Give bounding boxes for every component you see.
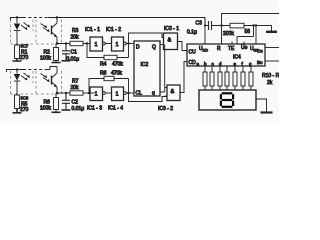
phototransistor T1: [51, 26, 53, 35]
resistor 200k: [230, 23, 244, 28]
svg-text:1: 1: [95, 92, 98, 98]
ground under R5: [13, 109, 22, 113]
resistor array R10-R16 2k: [203, 72, 207, 86]
svg-text:1: 1: [116, 42, 119, 48]
node: gate3 input junction: [88, 92, 90, 94]
svg-text:D: D: [136, 45, 140, 51]
node: T2 emitter junction: [56, 92, 58, 94]
svg-text:3C8: 3C8: [21, 96, 29, 101]
ground top-right: [271, 26, 273, 32]
svg-text:IC1 - 3: IC1 - 3: [87, 106, 102, 112]
node: T1 emitter junction: [56, 42, 58, 44]
wire gate4 output to CL: [126, 92, 134, 94]
inverter IC1-1: [90, 37, 103, 51]
wire V+ top rail: [10, 18, 205, 21]
inverter IC1-2: [112, 37, 124, 51]
svg-text:R8: R8: [100, 71, 107, 77]
svg-text:R4: R4: [100, 62, 107, 68]
wire Bo output to edge: [265, 60, 279, 62]
wire IC1-2 out over-route to IC3-1: [129, 33, 164, 44]
wires IC4 segment outputs: [205, 66, 251, 72]
svg-text:IC4: IC4: [233, 55, 241, 61]
wire Q/Qbar crossover link: [164, 45, 166, 93]
wire gate1 to gate2: [106, 43, 112, 45]
svg-text:IC3 - 2: IC3 - 2: [158, 106, 173, 112]
inverter IC1-4: [112, 87, 124, 101]
svg-text:IC1 - 1: IC1 - 1: [85, 27, 100, 33]
wire top-right supply line to edge: [221, 14, 279, 45]
ground under R6: [52, 111, 61, 113]
flip-flop IC2: [134, 41, 160, 96]
svg-text:C1: C1: [71, 50, 78, 56]
svg-text:270: 270: [20, 55, 29, 61]
svg-text:56: 56: [245, 29, 251, 35]
AND gate IC3-2: [167, 85, 180, 101]
T1 light arrows: [41, 24, 50, 32]
wire gate3 to gate4: [106, 92, 112, 94]
svg-text:20k: 20k: [71, 35, 80, 41]
resistor R3 20k: [70, 41, 83, 45]
svg-text:470k: 470k: [112, 62, 123, 68]
phototransistor T2: [51, 76, 53, 85]
node: C2 junction: [65, 92, 67, 94]
wire C3 branch down to IC4: [204, 26, 206, 45]
wire ch1 signal line: [57, 43, 90, 45]
svg-text:1: 1: [116, 92, 119, 98]
capacitor C1 0.01u: [62, 44, 70, 61]
wire IC1-4 out under-route to IC3-2: [129, 93, 168, 102]
sensor head 2 rail: [6, 67, 57, 73]
svg-text:100k: 100k: [40, 106, 51, 112]
ground under C1: [62, 60, 71, 62]
ground under R1: [13, 59, 22, 62]
svg-text:0.01μ: 0.01μ: [72, 106, 85, 112]
node: reset net junction: [220, 24, 222, 26]
wire IC3-2 output to CD: [180, 62, 187, 93]
wires resistors to display: [205, 86, 251, 90]
svg-text:CL: CL: [136, 91, 143, 97]
resistor R5: [15, 95, 20, 109]
wire gate2 output: [126, 43, 134, 45]
IC4 top pin ticks: [232, 42, 244, 45]
svg-text:C3: C3: [196, 21, 203, 27]
wire Co output to edge: [265, 47, 279, 49]
capacitor C3 0.1u: [205, 18, 272, 31]
svg-text:CD: CD: [189, 60, 197, 66]
resistor R2 100k: [54, 48, 59, 61]
node: IC1-2 output junction: [127, 42, 129, 44]
7-segment digit 8: [221, 93, 233, 107]
LED D2: [16, 70, 18, 74]
node: IC1-4 output junction: [127, 92, 129, 94]
svg-text:2k: 2k: [267, 80, 273, 86]
svg-text:1: 1: [95, 42, 98, 48]
svg-text:Ue: Ue: [241, 45, 248, 51]
ground under R2: [52, 62, 61, 64]
resistor R7 20k: [70, 91, 83, 95]
sensor head 1 dashed box (LED side): [11, 20, 34, 45]
resistor R1: [15, 45, 20, 59]
resistor R8 470k feedback: [89, 79, 129, 94]
svg-text:0.1μ: 0.1μ: [187, 30, 197, 36]
svg-text:&: &: [171, 89, 175, 95]
svg-text:IC1 - 2: IC1 - 2: [106, 27, 121, 33]
sensor head 2 dashed box (phototransistor side): [36, 71, 62, 94]
wire display common to ground: [256, 99, 267, 112]
svg-text:Bo: Bo: [257, 60, 263, 65]
counter IC4: [187, 44, 265, 66]
wire ch2 signal line: [57, 92, 94, 94]
node: rail junction LED1: [16, 16, 18, 18]
svg-text:IC3 - 1: IC3 - 1: [164, 26, 179, 32]
svg-text:DD: DD: [203, 49, 209, 53]
svg-text:Q: Q: [152, 45, 156, 51]
svg-text:Co: Co: [257, 49, 263, 54]
display HD1107 box: [199, 90, 256, 110]
resistor R4 470k feedback: [87, 44, 129, 58]
node: C1 junction: [65, 42, 67, 44]
svg-text:R3: R3: [72, 28, 79, 34]
svg-text:IC2: IC2: [141, 62, 149, 68]
ground under C2: [62, 109, 71, 111]
T2 light arrows: [41, 74, 50, 82]
svg-text:TE: TE: [228, 46, 235, 52]
wire Q to IC3-1: [160, 44, 164, 46]
wire IC3-1 output to CU: [178, 42, 188, 51]
AND gate IC3-1: [164, 33, 178, 50]
svg-text:200k: 200k: [223, 31, 234, 37]
svg-text:q: q: [152, 91, 155, 97]
svg-text:C2: C2: [72, 100, 79, 106]
sensor head 2 dashed box (LED side): [11, 71, 34, 94]
svg-text:CU: CU: [189, 50, 197, 56]
svg-text:470k: 470k: [111, 71, 122, 77]
svg-text:100k: 100k: [40, 56, 51, 62]
ground bottom-right: [261, 111, 273, 113]
inverter IC1-3: [90, 87, 103, 101]
node: gate1 input junction: [86, 42, 88, 44]
svg-text:R7: R7: [72, 79, 79, 85]
svg-text:&: &: [168, 38, 172, 44]
svg-text:R10 - R: R10 - R: [262, 73, 279, 79]
LED D1 light arrows: [21, 23, 30, 30]
LED D1 (emitter diode): [16, 18, 18, 24]
LED D2 light arrows: [21, 73, 30, 80]
svg-text:IC1 - 4: IC1 - 4: [108, 106, 123, 112]
resistor R6 100k: [54, 98, 59, 110]
sensor head 1 dashed box (phototransistor side): [36, 20, 62, 45]
wire Qbar to IC3-2: [160, 88, 167, 97]
svg-text:20k: 20k: [71, 85, 80, 91]
node: rail junction T1 collector: [56, 16, 58, 18]
svg-text:3C7: 3C7: [21, 44, 29, 49]
capacitor C2 0.01u: [62, 93, 70, 109]
svg-text:R: R: [217, 46, 221, 52]
